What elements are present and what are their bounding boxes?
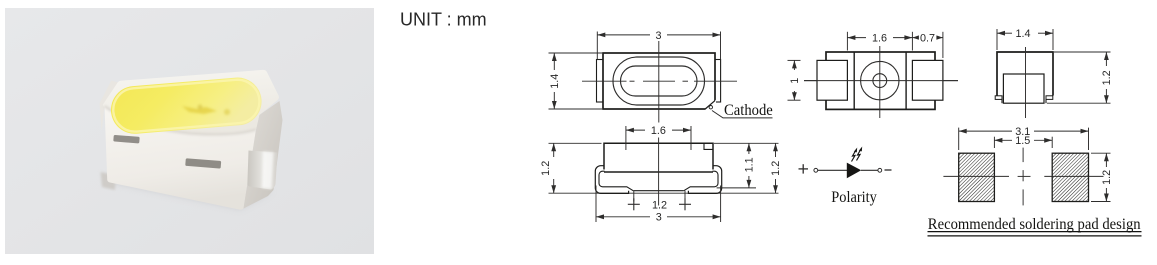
end view lead [1003, 74, 1044, 103]
dimension 1.4 extension lines (end) [996, 29, 998, 50]
dimension 1.4 line (end) [997, 32, 1012, 34]
front view left J-lead [595, 166, 628, 194]
svg-text:Recommended soldering pad desi: Recommended soldering pad design [928, 216, 1141, 233]
dimension 1.6 extension lines (side) [846, 32, 848, 51]
svg-text:1.1: 1.1 [743, 157, 755, 172]
end view body [997, 52, 1053, 96]
extension of body top to right (front) [714, 142, 779, 144]
svg-text:1.4: 1.4 [549, 74, 561, 89]
polarity anode wire [818, 169, 847, 171]
LED front electrode mark 2 [185, 158, 221, 168]
side view inner verticals [853, 52, 855, 109]
polarity diode triangle [847, 163, 861, 179]
dimension 1.6 extension lines (front) [625, 126, 627, 150]
front view seating baseline [549, 192, 779, 194]
svg-text:1.2: 1.2 [652, 199, 667, 211]
side view horizontal centerline [804, 80, 958, 82]
front view body [604, 143, 713, 172]
svg-text:3: 3 [656, 212, 662, 224]
top view right tab [714, 60, 720, 103]
dimension 1.5 line (pads) [993, 137, 995, 148]
dimension 3 extension lines (front) [595, 186, 597, 223]
dimension 1.2 right line (front) [775, 143, 777, 157]
top view left tab [597, 60, 604, 103]
svg-text:Polarity: Polarity [831, 189, 877, 206]
dimension 1 line (side) [793, 60, 795, 70]
LED right lead [247, 151, 277, 190]
LED right lead highlight [262, 152, 274, 190]
polarity emission arrows [852, 149, 862, 162]
svg-text:1.4: 1.4 [1015, 28, 1030, 40]
top view horizontal centerline [582, 80, 627, 82]
polarity anode terminal circle [814, 168, 818, 172]
svg-text:1.6: 1.6 [872, 33, 887, 45]
LED front face [105, 106, 257, 209]
lead center cross marks (front) [628, 203, 640, 205]
LED left end face [100, 81, 118, 131]
LED front-top boundary shade [105, 106, 257, 134]
end view vertical centerline [1025, 47, 1027, 118]
dimension 1.1 tick (front) [717, 187, 756, 189]
top view inner reflector stadium [621, 66, 698, 96]
top view chamfer dot [709, 106, 712, 109]
dimension 1.2 ticks (end) [1054, 51, 1111, 53]
LED yellow phosphor window [109, 76, 263, 136]
polarity minus sign [885, 169, 892, 171]
svg-text:1.6: 1.6 [651, 125, 666, 137]
solder pad right [1052, 153, 1088, 201]
svg-text:0.7: 0.7 [920, 33, 935, 45]
side view left lead [817, 60, 847, 100]
svg-text:UNIT : mm: UNIT : mm [400, 10, 487, 30]
front view cathode notch [704, 143, 713, 149]
dimension 3 extension lines [596, 32, 598, 60]
svg-text:Cathode: Cathode [724, 102, 773, 119]
end view left foot [995, 96, 1002, 100]
front view right J-lead [688, 166, 721, 194]
top view body [603, 53, 715, 109]
dimension 0.7 line (side) [912, 37, 917, 39]
side view horizontal centerline over leads [804, 80, 958, 82]
solder pad left [959, 153, 995, 201]
photo background [5, 8, 374, 254]
LED front electrode mark 1 [113, 135, 139, 144]
svg-text:1.2: 1.2 [540, 161, 552, 176]
dimension 1.6 line (front) [626, 129, 645, 131]
top view cathode chamfer [705, 101, 715, 109]
svg-text:1.2: 1.2 [770, 161, 782, 176]
front view vertical centerline [658, 138, 660, 206]
polarity cathode wire [861, 169, 878, 171]
LED right face [244, 101, 283, 209]
dimension 1.4 line [553, 53, 555, 70]
top view chamfer corner whiteout [705, 100, 716, 111]
dimension 3 line (front) [596, 216, 650, 218]
lead center extension lines (front) [633, 191, 635, 202]
dimension 1.2 line (end) [1105, 52, 1107, 66]
pads horizontal centerline [943, 175, 1009, 177]
dimension 1.1 right line (front) [748, 143, 750, 154]
dimension 1.2 left ticks (front) [549, 142, 602, 144]
dimension 1.2 left line (front) [553, 143, 555, 157]
side view lens inner circle [873, 74, 887, 88]
pads vertical centerline [1022, 148, 1024, 163]
svg-text:1: 1 [789, 78, 801, 84]
end view right foot [1046, 96, 1053, 100]
LED shadow [104, 172, 272, 210]
side view vertical centerline [879, 46, 881, 118]
side view lens outer circle [861, 61, 899, 99]
dimension 3.1 extension lines (pads) [958, 128, 960, 150]
cathode leader line [712, 111, 773, 118]
dimension 1.6 line (side) [847, 37, 866, 39]
dimension 1.2 line (pads) [1105, 153, 1107, 167]
dimension 1.4 extension lines [549, 52, 603, 54]
svg-text:1.2: 1.2 [1101, 70, 1113, 85]
LED top face [103, 70, 279, 135]
side view right lead [912, 60, 943, 100]
front view bottom center line [633, 190, 684, 192]
dimension 1 ticks (side) [788, 59, 801, 61]
svg-text:1.5: 1.5 [1015, 135, 1030, 147]
svg-text:3: 3 [655, 30, 661, 42]
LED die glints [182, 105, 230, 116]
dimension 3 line [597, 34, 650, 36]
top view outer reflector stadium [613, 57, 705, 105]
pads caption underline [928, 231, 1142, 233]
dimension 3.1 line (pads) [959, 130, 1012, 132]
LED left foot lead [101, 172, 117, 190]
dimension 1.2 ticks (pads) [1091, 152, 1111, 154]
polarity plus sign [799, 168, 809, 170]
polarity cathode terminal circle [878, 168, 882, 172]
side view body [826, 52, 935, 109]
svg-text:1.2: 1.2 [1101, 170, 1113, 185]
top view vertical centerline [658, 41, 660, 123]
